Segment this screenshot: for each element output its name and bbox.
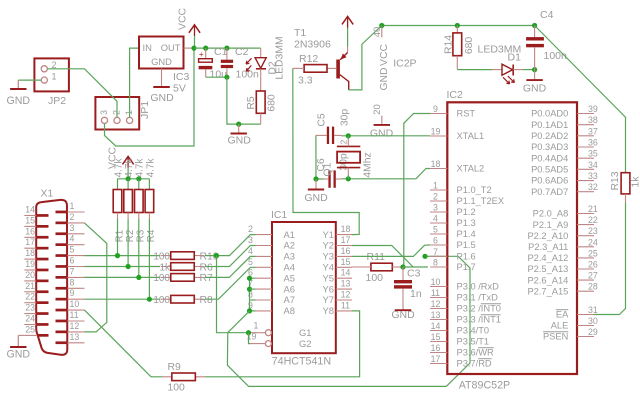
wire pull-up bus bbox=[118, 178, 150, 180]
svg-text:1k: 1k bbox=[631, 176, 640, 188]
IC2 pin 29 PSEN bbox=[577, 336, 594, 338]
svg-text:30: 30 bbox=[588, 316, 598, 326]
T1 base lead bbox=[327, 67, 337, 69]
svg-text:P3.5/T1: P3.5/T1 bbox=[457, 337, 490, 347]
IC2 pin 33 P0.6AD6 bbox=[577, 180, 594, 182]
svg-text:12: 12 bbox=[431, 299, 441, 309]
svg-text:13: 13 bbox=[70, 332, 80, 342]
supply rail VCC to pin 40 bbox=[382, 25, 535, 27]
wire A8 to G1 net bbox=[228, 311, 250, 333]
X1 pin 9 pad and stub bbox=[56, 298, 67, 301]
svg-text:4.7k: 4.7k bbox=[113, 158, 124, 178]
wire VCC arrow to pull-up bus bbox=[127, 168, 129, 179]
wire C1 C2 bottoms to GND rail bbox=[206, 76, 227, 78]
svg-text:Y7: Y7 bbox=[323, 294, 334, 305]
svg-text:17: 17 bbox=[431, 354, 441, 364]
crystal Q1 4Mhz bbox=[337, 145, 360, 147]
svg-text:1: 1 bbox=[254, 321, 259, 331]
svg-text:39: 39 bbox=[588, 104, 598, 114]
IC2 pin 37 P0.2AD2 bbox=[577, 135, 594, 137]
wire JP1 pin1 to IC3 IN bbox=[130, 48, 139, 117]
wire R12 to IC1 Y1 bbox=[293, 68, 359, 234]
resistor R6 1k bbox=[161, 266, 205, 268]
IC1 pin 1 G1 (inverting) bbox=[250, 332, 265, 334]
svg-text:R9: R9 bbox=[168, 362, 182, 373]
svg-text:X1: X1 bbox=[41, 188, 54, 200]
X1 pin 2 pad and stub bbox=[56, 222, 67, 225]
IC2 pin 7 P1.6 bbox=[430, 255, 447, 257]
wire R13 to IC2 EA bbox=[594, 203, 626, 315]
supply VCC arrow at pull-up bank bbox=[123, 156, 134, 164]
svg-text:P3.4/T0: P3.4/T0 bbox=[457, 326, 490, 336]
IC2 pin 30 ALE bbox=[577, 325, 594, 327]
svg-text:13: 13 bbox=[341, 279, 351, 289]
svg-text:100: 100 bbox=[153, 295, 170, 306]
X1 pin 10 pad and stub bbox=[56, 309, 67, 312]
IC IC1 74HCT541N body bbox=[272, 222, 336, 353]
svg-text:P1.2: P1.2 bbox=[457, 207, 476, 217]
X1 pin 19 pad and stub bbox=[37, 269, 49, 272]
wire R1 to X1 pin5 row bbox=[117, 219, 119, 256]
svg-text:1k: 1k bbox=[159, 262, 171, 273]
svg-text:P1.1_T2EX: P1.1_T2EX bbox=[457, 196, 505, 206]
resistor R9 100 bbox=[162, 376, 206, 378]
supply VCC arrow top bbox=[189, 25, 200, 33]
svg-text:2: 2 bbox=[339, 139, 349, 144]
svg-text:14: 14 bbox=[25, 205, 35, 215]
svg-text:R12: R12 bbox=[299, 53, 318, 65]
IC2 pin 27 P2.6_A14 bbox=[577, 279, 594, 281]
svg-text:15: 15 bbox=[25, 215, 35, 225]
wire D1 to C4 bottom junction bbox=[513, 69, 523, 71]
svg-text:P0.6AD6: P0.6AD6 bbox=[531, 176, 568, 186]
IC1 pin 14 Y5 bbox=[336, 277, 352, 279]
svg-text:P3.6/WR: P3.6/WR bbox=[457, 348, 494, 358]
IC2 pin 12 P3.2 /INT0 bbox=[430, 308, 447, 310]
svg-text:21: 21 bbox=[25, 281, 35, 291]
svg-text:Y8: Y8 bbox=[323, 305, 334, 316]
IC2 pin 22 P2.1_A9 bbox=[577, 224, 594, 226]
svg-text:P1.7: P1.7 bbox=[457, 262, 476, 272]
IC2 pin 14 P3.4/T0 bbox=[430, 330, 447, 332]
wire IC2 RST net bbox=[404, 114, 430, 268]
resistor R13 1k bbox=[621, 173, 630, 194]
resistor R2 4.7k bbox=[127, 179, 129, 190]
svg-text:21: 21 bbox=[588, 204, 598, 214]
connector X1 (DB25) outline bbox=[36, 200, 67, 355]
IC1 pin 11 Y8 bbox=[336, 310, 352, 312]
IC2 pin 15 P3.5/T1 bbox=[430, 341, 447, 343]
svg-text:LED3MM: LED3MM bbox=[478, 44, 522, 56]
svg-text:A1: A1 bbox=[284, 229, 295, 240]
svg-text:15: 15 bbox=[341, 257, 351, 267]
svg-text:28: 28 bbox=[588, 282, 598, 292]
svg-text:GND: GND bbox=[391, 309, 415, 321]
resistor R4 4.7k bbox=[148, 179, 150, 190]
svg-text:18: 18 bbox=[431, 159, 441, 169]
wire R6 to IC1 A2 bbox=[205, 246, 256, 267]
svg-text:R4: R4 bbox=[146, 229, 157, 242]
X1 pin 12 pad and stub bbox=[56, 331, 67, 334]
IC3 OUT pin stub bbox=[184, 47, 193, 49]
X1 pin 17 pad and stub bbox=[37, 247, 49, 250]
svg-text:24: 24 bbox=[25, 314, 35, 324]
svg-text:Y6: Y6 bbox=[323, 283, 334, 294]
svg-text:VCC: VCC bbox=[379, 44, 390, 66]
svg-text:P3.7/RD: P3.7/RD bbox=[457, 359, 492, 369]
X1 pin 4 pad and stub bbox=[56, 243, 67, 246]
svg-text:2N3906: 2N3906 bbox=[294, 39, 331, 51]
JP2 pin 1 bbox=[41, 77, 47, 83]
svg-text:38: 38 bbox=[588, 115, 598, 125]
svg-text:9: 9 bbox=[433, 104, 438, 114]
resistor R10 100 bbox=[161, 255, 205, 257]
svg-text:Y1: Y1 bbox=[323, 229, 334, 240]
svg-text:11: 11 bbox=[70, 310, 79, 320]
svg-text:14: 14 bbox=[431, 321, 441, 331]
svg-text:P1.5: P1.5 bbox=[457, 240, 476, 250]
svg-text:A5: A5 bbox=[284, 272, 295, 283]
svg-text:23: 23 bbox=[25, 303, 35, 313]
wire VCC to OUT junction bbox=[194, 36, 196, 48]
X1 pin 14 pad and stub bbox=[37, 214, 49, 217]
svg-text:P2.3_A11: P2.3_A11 bbox=[528, 242, 568, 252]
svg-text:GND: GND bbox=[7, 349, 31, 361]
voltage regulator IC3 body bbox=[139, 37, 184, 69]
IC2 pin 3 P1.2 bbox=[430, 211, 447, 213]
IC1 pin 5 A4 bbox=[256, 266, 273, 268]
svg-text:P1.4: P1.4 bbox=[457, 229, 476, 239]
svg-text:4.7k: 4.7k bbox=[145, 158, 156, 178]
svg-text:4Mhz: 4Mhz bbox=[363, 152, 374, 177]
JP1 pin 3 bbox=[101, 117, 107, 123]
X1 pin 23 pad and stub bbox=[37, 312, 49, 315]
resistor R3 4.7k bbox=[138, 179, 140, 190]
svg-text:100: 100 bbox=[153, 251, 170, 262]
svg-text:C2: C2 bbox=[235, 46, 249, 58]
wire T1 collector to VCC rail junction bbox=[349, 26, 382, 90]
svg-text:G2: G2 bbox=[299, 338, 312, 349]
capacitor C4 100n bbox=[534, 26, 536, 38]
svg-text:2: 2 bbox=[70, 212, 75, 222]
svg-text:25: 25 bbox=[25, 324, 35, 334]
ground at C5 C6 bbox=[315, 179, 317, 189]
svg-text:100: 100 bbox=[168, 383, 186, 394]
svg-text:GND: GND bbox=[370, 128, 394, 140]
svg-text:R2: R2 bbox=[125, 229, 136, 242]
svg-text:C4: C4 bbox=[540, 9, 554, 21]
IC2 pin 36 P0.3AD3 bbox=[577, 146, 594, 148]
svg-text:8: 8 bbox=[433, 258, 438, 268]
resistor R14 680 bbox=[456, 26, 458, 33]
wire R10 net down to G1/G2 bbox=[217, 256, 251, 333]
svg-text:36: 36 bbox=[588, 138, 598, 148]
svg-text:25: 25 bbox=[588, 248, 598, 258]
wire R8 to IC1 A4 bbox=[205, 267, 256, 299]
IC1 pin 9 A8 bbox=[256, 310, 273, 312]
X1 pin 24 pad and stub bbox=[37, 323, 49, 326]
ground at IC3 bbox=[161, 69, 163, 87]
IC2 pin 4 P1.3 bbox=[430, 222, 447, 224]
IC2 pin 28 P2.7_A15 bbox=[577, 290, 594, 292]
IC2 pin 1 P1.0_T2 bbox=[430, 189, 447, 191]
svg-text:IC1: IC1 bbox=[271, 210, 287, 221]
supply VCC arrow at T1 bbox=[342, 16, 353, 24]
IC1 pin 12 Y7 bbox=[336, 299, 352, 301]
svg-text:IC3: IC3 bbox=[173, 71, 190, 83]
wire R3 to X1 pin7 row bbox=[138, 219, 140, 277]
svg-text:6: 6 bbox=[433, 236, 438, 246]
svg-text:11: 11 bbox=[431, 288, 440, 298]
svg-text:IC2P: IC2P bbox=[393, 58, 416, 70]
svg-text:IN: IN bbox=[143, 42, 152, 53]
svg-text:10: 10 bbox=[431, 277, 441, 287]
wire XTAL1 net bbox=[342, 135, 431, 137]
svg-text:2: 2 bbox=[433, 192, 438, 202]
svg-text:1: 1 bbox=[433, 181, 438, 191]
wire R4 to X1 pin9 row bbox=[148, 219, 150, 299]
svg-text:8: 8 bbox=[70, 277, 75, 287]
X1 pin 15 pad and stub bbox=[37, 225, 49, 228]
IC2 pin 24 P2.3_A11 bbox=[577, 246, 594, 248]
svg-text:P1.3: P1.3 bbox=[457, 218, 476, 228]
svg-text:23: 23 bbox=[588, 226, 598, 236]
svg-text:P0.1AD1: P0.1AD1 bbox=[531, 120, 568, 130]
X1 pin 16 pad and stub bbox=[37, 236, 49, 239]
svg-text:JP2: JP2 bbox=[48, 95, 66, 107]
svg-text:C1: C1 bbox=[214, 46, 228, 58]
svg-text:P2.4_A12: P2.4_A12 bbox=[527, 253, 568, 263]
svg-text:Y4: Y4 bbox=[323, 262, 334, 273]
svg-text:20: 20 bbox=[25, 270, 35, 280]
svg-text:P3.3 /INT1: P3.3 /INT1 bbox=[457, 315, 501, 325]
X1 pin 7 pad and stub bbox=[56, 276, 67, 279]
svg-text:A6: A6 bbox=[284, 283, 295, 294]
svg-text:29: 29 bbox=[588, 327, 598, 337]
IC2 pin 13 P3.3 /INT1 bbox=[430, 319, 447, 321]
svg-text:P3.0 /RxD: P3.0 /RxD bbox=[457, 282, 500, 292]
wire X1 pin2 to pin12 crossover bbox=[85, 223, 107, 332]
svg-text:P0.2AD2: P0.2AD2 bbox=[531, 131, 568, 141]
ground at C3 bbox=[395, 309, 412, 311]
svg-text:34: 34 bbox=[588, 160, 598, 170]
IC2 pin 5 P1.4 bbox=[430, 233, 447, 235]
svg-text:Q1: Q1 bbox=[323, 162, 334, 176]
IC2 pin 18 XTAL2 bbox=[430, 168, 447, 170]
svg-text:A3: A3 bbox=[284, 251, 295, 262]
IC2 pin 2 P1.1_T2EX bbox=[430, 200, 447, 202]
IC2 overlines for inverted signals bbox=[481, 303, 501, 305]
svg-text:74HCT541N: 74HCT541N bbox=[272, 355, 331, 367]
wire G net down to bottom run bbox=[227, 333, 446, 387]
svg-text:Y5: Y5 bbox=[323, 272, 334, 283]
IC2 pin 11 P3.1 /TxD bbox=[430, 297, 447, 299]
IC1 pin 16 Y3 bbox=[336, 255, 352, 257]
svg-text:5V: 5V bbox=[173, 83, 186, 95]
capacitor C2 100n bbox=[226, 48, 228, 60]
svg-text:22: 22 bbox=[25, 292, 35, 302]
wire D2 to R5 bbox=[260, 69, 262, 91]
X1 pin 18 pad and stub bbox=[37, 258, 49, 261]
svg-text:R13: R13 bbox=[610, 171, 621, 190]
IC2 pin 6 P1.5 bbox=[430, 244, 447, 246]
svg-text:C5: C5 bbox=[317, 113, 328, 127]
svg-text:24: 24 bbox=[588, 237, 598, 247]
svg-text:4.7k: 4.7k bbox=[135, 158, 146, 178]
IC2 pin 39 P0.0AD0 bbox=[577, 113, 594, 115]
svg-text:33: 33 bbox=[588, 171, 598, 181]
svg-text:GND: GND bbox=[304, 192, 328, 204]
svg-text:9: 9 bbox=[70, 288, 75, 298]
connector JP1 body bbox=[95, 97, 139, 130]
wire X1 pin9 row to R8 bbox=[85, 298, 161, 300]
IC2 pin 31 EA bbox=[577, 314, 594, 316]
wire R9 to IC1 Y8 bbox=[205, 311, 360, 377]
svg-text:2: 2 bbox=[248, 224, 253, 234]
svg-text:680: 680 bbox=[267, 94, 278, 112]
svg-text:IC2: IC2 bbox=[447, 89, 464, 101]
svg-text:100: 100 bbox=[153, 273, 170, 284]
svg-text:P2.7_A15: P2.7_A15 bbox=[527, 286, 568, 296]
IC2P power pin 40 VCC bbox=[381, 26, 383, 38]
wire R2 to X1 pin6 row bbox=[127, 219, 129, 267]
svg-text:R5: R5 bbox=[246, 96, 257, 110]
svg-text:1: 1 bbox=[70, 201, 75, 211]
resistor R11 100 bbox=[371, 263, 392, 271]
IC1 pin 19 G2 (inverting) bbox=[250, 343, 265, 345]
svg-text:A4: A4 bbox=[284, 262, 295, 273]
svg-text:P0.5AD5: P0.5AD5 bbox=[531, 165, 568, 175]
connector JP2 body bbox=[34, 58, 69, 91]
IC IC2 AT89C52P body bbox=[447, 102, 577, 374]
svg-text:RST: RST bbox=[457, 109, 476, 119]
svg-text:18: 18 bbox=[341, 224, 351, 234]
svg-text:R14: R14 bbox=[444, 35, 455, 54]
wire IC1 Y3 to IC2 P1.5 crossover bbox=[352, 245, 430, 256]
svg-text:19: 19 bbox=[25, 259, 35, 269]
svg-text:16: 16 bbox=[341, 246, 351, 256]
resistor R5 680 bbox=[256, 91, 265, 113]
X1 pin 1 pad and stub bbox=[56, 211, 67, 214]
wire C4 junction to R13 bbox=[535, 26, 626, 173]
svg-text:100n: 100n bbox=[544, 50, 568, 62]
svg-text:27: 27 bbox=[588, 271, 598, 281]
svg-text:XTAL2: XTAL2 bbox=[457, 164, 485, 174]
svg-text:P1.6: P1.6 bbox=[457, 252, 476, 262]
svg-text:JP1: JP1 bbox=[139, 101, 151, 119]
wire R7 to IC1 A3 bbox=[205, 256, 256, 277]
svg-text:PSEN: PSEN bbox=[543, 332, 568, 342]
svg-text:3: 3 bbox=[433, 203, 438, 213]
X1 pin 25 pad and stub bbox=[37, 334, 49, 337]
IC1 pin 4 A3 bbox=[256, 255, 273, 257]
JP2 pin 2 bbox=[41, 66, 47, 72]
X1 pin 21 pad and stub bbox=[37, 290, 49, 293]
X1 pin 5 pad and stub bbox=[56, 254, 67, 257]
svg-text:A7: A7 bbox=[284, 294, 295, 305]
svg-text:EA: EA bbox=[556, 310, 569, 320]
X1 pin 3 pad and stub bbox=[56, 232, 67, 235]
svg-text:7: 7 bbox=[433, 247, 438, 257]
svg-text:3: 3 bbox=[70, 223, 75, 233]
svg-text:5: 5 bbox=[70, 245, 75, 255]
IC2 pin 8 P1.7 bbox=[430, 266, 447, 268]
svg-text:35: 35 bbox=[588, 149, 598, 159]
svg-text:31: 31 bbox=[588, 305, 598, 315]
svg-text:32: 32 bbox=[588, 182, 598, 192]
wire bottom run up through IC2 to P1.6 bbox=[427, 256, 470, 386]
svg-text:1n: 1n bbox=[410, 288, 422, 300]
svg-text:R3: R3 bbox=[136, 229, 147, 242]
svg-text:20: 20 bbox=[372, 104, 383, 115]
svg-text:+: + bbox=[199, 50, 204, 59]
IC2 pin 38 P0.1AD1 bbox=[577, 124, 594, 126]
svg-text:37: 37 bbox=[588, 126, 598, 136]
svg-text:OUT: OUT bbox=[161, 42, 181, 53]
svg-text:7: 7 bbox=[70, 266, 75, 276]
svg-text:GND: GND bbox=[379, 67, 390, 90]
svg-text:100: 100 bbox=[366, 272, 384, 284]
LED D1 bbox=[457, 69, 492, 71]
svg-text:P1.0_T2: P1.0_T2 bbox=[457, 185, 492, 195]
svg-text:P0.3AD3: P0.3AD3 bbox=[531, 142, 568, 152]
svg-text:17: 17 bbox=[341, 235, 351, 245]
svg-text:R7: R7 bbox=[200, 273, 214, 284]
svg-text:4: 4 bbox=[433, 214, 438, 224]
IC1 pin 3 A2 bbox=[256, 245, 273, 247]
wire C5 C6 left plates to ground bbox=[316, 135, 324, 179]
svg-text:GND: GND bbox=[151, 56, 172, 67]
svg-text:30p: 30p bbox=[340, 109, 351, 127]
svg-text:LED3MM: LED3MM bbox=[275, 36, 286, 79]
svg-text:P2.6_A14: P2.6_A14 bbox=[527, 275, 568, 285]
svg-text:P0.0AD0: P0.0AD0 bbox=[531, 109, 568, 119]
wire tie IC1 A5-A8 bbox=[250, 278, 256, 311]
svg-text:A8: A8 bbox=[284, 305, 295, 316]
X1 pin 13 pad and stub bbox=[56, 341, 67, 344]
IC2 pin 35 P0.4AD4 bbox=[577, 157, 594, 159]
wire JP2 pin2 to JP1 pin2 bbox=[47, 69, 117, 118]
svg-text:12: 12 bbox=[341, 290, 351, 300]
svg-text:14: 14 bbox=[341, 268, 351, 278]
svg-text:1: 1 bbox=[52, 71, 57, 81]
IC2 pin 19 XTAL1 bbox=[430, 135, 447, 137]
svg-text:15: 15 bbox=[431, 332, 441, 342]
IC2 pin 23 P2.2_A10 bbox=[577, 235, 594, 237]
IC1 pin 18 Y1 bbox=[336, 234, 352, 236]
capacitor C3 1n bbox=[402, 267, 404, 280]
IC2 pin 17 P3.7/RD bbox=[430, 363, 447, 365]
svg-text:4.7k: 4.7k bbox=[124, 158, 135, 178]
svg-text:12: 12 bbox=[70, 321, 80, 331]
svg-text:R8: R8 bbox=[200, 295, 214, 306]
JP1 pin 1 bbox=[127, 117, 133, 123]
svg-text:C3: C3 bbox=[407, 268, 421, 280]
svg-text:13: 13 bbox=[431, 310, 441, 320]
resistor R12 3.3 bbox=[304, 65, 327, 73]
svg-text:3.3: 3.3 bbox=[298, 75, 313, 87]
wire JP1 pin3 to VCC rail bbox=[105, 48, 195, 146]
svg-text:ALE: ALE bbox=[551, 321, 569, 331]
IC1 pin 2 A1 bbox=[256, 234, 273, 236]
svg-text:17: 17 bbox=[25, 237, 35, 247]
capacitor C1 10u (polarized) bbox=[205, 48, 207, 59]
wire R10 to IC1 A1 bbox=[205, 235, 256, 256]
IC2 pin 25 P2.4_A12 bbox=[577, 257, 594, 259]
svg-text:GND: GND bbox=[228, 134, 252, 146]
X1 pin 11 pad and stub bbox=[56, 320, 67, 323]
svg-text:R6: R6 bbox=[200, 262, 214, 273]
